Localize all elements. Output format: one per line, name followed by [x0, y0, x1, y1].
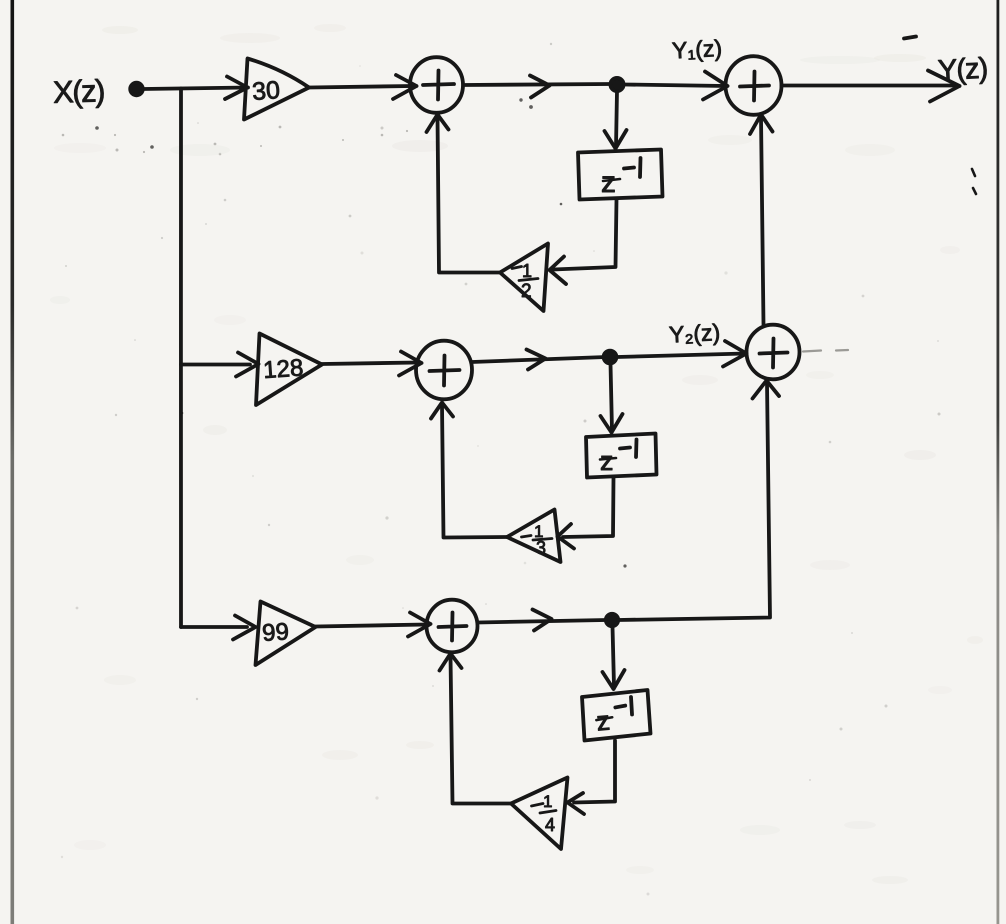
arrowhead into adder A3 bottom: [440, 654, 462, 671]
arrowhead mid-wire A3 to N3: [533, 610, 552, 631]
wire gain -1/4 back up to adder A3: [451, 656, 512, 804]
arrowhead into delay D3: [603, 670, 625, 689]
node Y2(z) label: [668, 319, 720, 348]
node X input junction dot: [130, 83, 143, 96]
arrowhead into gain 128: [236, 353, 259, 377]
arrowhead into delay D1: [605, 130, 627, 149]
wire delay D3 down and left to gain -1/4: [574, 741, 615, 803]
node N2 junction dot: [604, 351, 617, 364]
node Y(z) label: [937, 53, 988, 88]
gain -1/2 (triangle): [500, 244, 548, 312]
wire node N2 to adder A5: [617, 354, 745, 358]
wire adder A1 to node N1: [464, 84, 612, 85]
wire node N1 to adder A4: [624, 85, 726, 87]
arrowhead into delay D2: [601, 414, 623, 433]
arrowhead into adder A4: [703, 72, 728, 100]
wire gain 128 to adder A2: [322, 363, 418, 365]
stray pen dash above Y(z): [904, 37, 916, 39]
gain -1/4 value label: [532, 792, 557, 835]
wire adder A2 to node N2: [472, 357, 606, 362]
adder A2: [416, 341, 472, 400]
wire delay D2 down and left to gain -1/3: [563, 478, 614, 538]
arrowhead mid-wire A2 to N2: [527, 350, 546, 370]
adder A2 plus sign: [430, 356, 460, 386]
wire adder A5 up to adder A4: [761, 117, 764, 325]
arrowhead into adder A1: [393, 75, 417, 99]
node N1 junction dot: [610, 78, 623, 91]
gain 30 (triangle): [244, 59, 309, 120]
delay z^-1 D1 (box): [578, 150, 663, 200]
arrowhead into adder A4 bottom: [750, 115, 773, 135]
output arrowhead Y(z): [928, 71, 960, 102]
node N3 junction dot: [606, 614, 618, 626]
wire node N3 down to delay D3: [613, 627, 615, 687]
adder A1: [410, 57, 463, 113]
adder A4: [726, 56, 782, 115]
arrowhead into adder A1 bottom: [427, 115, 449, 133]
gain -1/2 value label: [512, 261, 538, 302]
delay z^-1 D3 (box): [582, 690, 651, 741]
arrowhead into adder A3: [408, 613, 431, 637]
adder A3: [427, 600, 478, 653]
adder A5: [747, 325, 800, 380]
svg-text:Y(z): Y(z): [937, 53, 988, 88]
wire gain 30 to adder A1: [309, 86, 412, 88]
gain 99 (triangle): [256, 602, 316, 666]
gain 128 (triangle): [256, 334, 322, 406]
adder A4 plus sign: [740, 72, 769, 101]
faint pencil dashes right of adder A5: [803, 350, 848, 352]
svg-text:128: 128: [262, 354, 304, 384]
gain -1/3 (triangle): [507, 510, 561, 563]
wire gain -1/3 back up to adder A2: [442, 405, 507, 538]
wire adder A4 to output Y(z): [782, 84, 959, 88]
arrowhead into gain -1/2: [550, 257, 567, 285]
svg-text:z: z: [600, 446, 614, 476]
arrowhead into gain -1/4: [568, 793, 585, 814]
svg-text:z: z: [601, 166, 616, 199]
gain 30 value label: [251, 76, 281, 106]
wire input branch vertical down to branch 3: [179, 89, 183, 628]
svg-text:4: 4: [545, 815, 555, 835]
arrowhead into gain -1/3: [558, 524, 575, 549]
delay D2 value label z^-1: [600, 440, 637, 477]
wire delay D1 down and left to gain -1/2: [553, 200, 617, 270]
arrowhead into adder A5 bottom: [753, 381, 780, 399]
gain 99 value label: [261, 618, 290, 647]
wire branch to gain 128: [181, 363, 250, 367]
gain 128 value label: [262, 354, 304, 384]
arrowhead into gain 30: [225, 77, 248, 100]
delay D1 value label z^-1: [601, 158, 641, 199]
svg-text:3: 3: [536, 538, 546, 558]
wire node N2 down to delay D2: [611, 364, 613, 432]
node Y1(z) label: [671, 35, 722, 64]
wire input dot to gain 30: [143, 88, 248, 90]
svg-text:Y₂(z): Y₂(z): [668, 319, 720, 348]
wire gain 99 to adder A3: [316, 625, 427, 627]
svg-text:2: 2: [521, 281, 532, 302]
wire adder A3 to node N3: [478, 620, 607, 623]
node X(z) label: [52, 73, 104, 110]
svg-text:30: 30: [251, 76, 281, 106]
gain -1/4 (triangle): [511, 778, 568, 850]
arrowhead into adder A5: [723, 341, 747, 367]
svg-text:1: 1: [543, 792, 552, 811]
svg-text:X(z): X(z): [52, 73, 104, 110]
arrowhead into adder A2: [399, 352, 422, 376]
adder A1 plus sign: [423, 71, 454, 100]
svg-text:Y₁(z): Y₁(z): [671, 35, 722, 64]
delay D3 value label z^-1: [595, 697, 635, 737]
arrowhead mid-wire A1 to N1: [530, 76, 550, 98]
wire branch corner to gain 99: [181, 625, 247, 629]
wire node N3 right and up to adder A5: [619, 383, 771, 620]
delay z^-1 D2 (box): [586, 434, 657, 478]
arrowhead into gain 99: [233, 616, 256, 640]
wire node N1 down to delay D1: [616, 91, 617, 147]
stray pen marks right margin: [972, 169, 976, 194]
adder A5 plus sign: [760, 339, 788, 368]
adder A3 plus sign: [439, 613, 467, 641]
arrowhead into adder A2 bottom: [431, 403, 453, 419]
gain -1/3 value label: [522, 522, 553, 558]
wire gain -1/2 back up to adder A1: [438, 117, 501, 273]
svg-text:99: 99: [261, 618, 290, 647]
